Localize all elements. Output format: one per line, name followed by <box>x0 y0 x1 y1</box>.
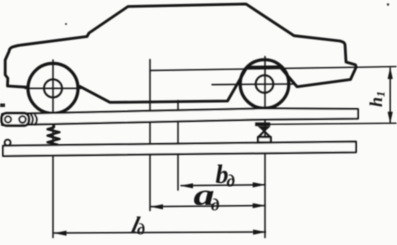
pivot base block <box>258 137 271 142</box>
rear wheel vertical centerline / dimension ext line <box>264 57 266 238</box>
hook ring at lower rail left end <box>5 140 11 146</box>
b arrowhead left <box>180 183 193 188</box>
rear wheel tire <box>240 60 289 109</box>
CG vertical ext line <box>149 60 151 211</box>
car body outline <box>5 4 356 102</box>
front wheel hub <box>44 79 62 97</box>
h1 dimension arrow line <box>389 68 391 123</box>
rear wheel hub <box>256 75 274 93</box>
l arrowhead left <box>54 231 67 236</box>
h1 arrowhead up <box>388 67 393 79</box>
front wheel horizontal centerline <box>25 87 81 89</box>
l arrowhead right <box>253 230 266 235</box>
pivot knife-edge upper triangle <box>258 126 271 132</box>
lower rail <box>3 142 356 156</box>
svg-text:h1: h1 <box>366 91 388 107</box>
seam line on upper rail <box>150 116 212 119</box>
rear wheel horizontal centerline <box>212 83 293 86</box>
a dimension line <box>151 206 266 207</box>
roller right <box>19 116 26 123</box>
carriage arc marks <box>31 115 37 125</box>
pivot support plate <box>255 122 270 126</box>
spring <box>48 126 60 146</box>
CG horizontal line / h1 top extension <box>150 67 396 71</box>
mark at left edge <box>0 104 5 108</box>
upper rail (platform) <box>2 108 358 125</box>
front wheel vertical centerline / l ext line <box>52 60 54 238</box>
svg-text:д: д <box>137 222 145 239</box>
h1 bottom extension line <box>256 123 396 124</box>
front wheel tire <box>28 63 78 113</box>
svg-text:д: д <box>227 172 236 191</box>
speck top left <box>65 23 67 25</box>
a arrowhead right <box>253 203 266 208</box>
b dimension line <box>181 184 265 187</box>
svg-text:д: д <box>211 196 220 215</box>
pivot knife-edge lower triangle <box>258 131 270 137</box>
h1 arrowhead down <box>388 112 393 124</box>
roller carriage at rail left end <box>2 113 30 125</box>
a arrowhead left <box>150 204 163 209</box>
b arrowhead right <box>253 182 266 187</box>
roller left <box>5 116 11 122</box>
label h1 <box>366 91 388 107</box>
l dimension line <box>54 232 266 233</box>
b ext line <box>177 101 179 191</box>
speck top right <box>387 3 389 5</box>
